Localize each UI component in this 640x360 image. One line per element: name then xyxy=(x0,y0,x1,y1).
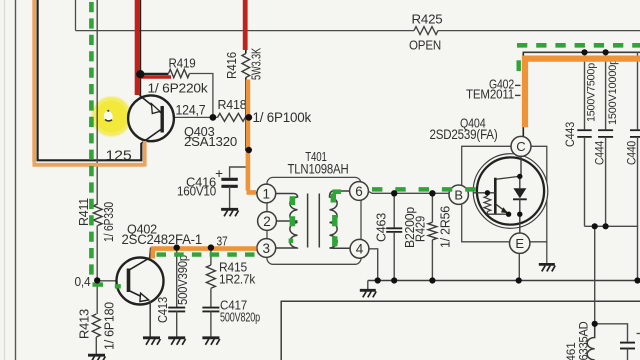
svg-text:3: 3 xyxy=(263,241,271,256)
wire: Q402 collector node line xyxy=(151,247,257,249)
svg-text:R419: R419 xyxy=(169,56,196,71)
T401 pin 2 xyxy=(258,212,277,231)
node: bus tap pin4 xyxy=(375,277,381,283)
label R415 xyxy=(219,260,247,275)
label 16335AD type of L461 xyxy=(579,322,591,360)
wire: Q404 E ground stub xyxy=(546,242,548,264)
svg-text:1/ 6P220k: 1/ 6P220k xyxy=(148,81,209,96)
resistor R413 xyxy=(92,314,100,337)
label 1500V10000p value of C444 xyxy=(607,59,619,125)
svg-text:1500V7500p: 1500V7500p xyxy=(586,63,598,122)
wire: R413 to ground xyxy=(95,337,97,355)
svg-text:E: E xyxy=(515,236,524,251)
node: cap return bus tap 2 xyxy=(603,223,609,229)
wire: left vertical wire x=15.5 xyxy=(15,0,17,360)
wire: C443 lower stem xyxy=(584,137,586,226)
transistor Q404 body xyxy=(473,154,548,229)
wire: C416 to ground xyxy=(229,186,231,208)
label 500V390p value of C413 xyxy=(176,255,190,305)
label C413 xyxy=(156,297,170,323)
green dashed: pin6 to base trace xyxy=(372,187,477,192)
svg-text:1: 1 xyxy=(263,186,271,201)
node: HV bus tap C443 xyxy=(581,49,587,55)
svg-text:160V10: 160V10 xyxy=(177,184,216,199)
label 1/2R56 value of R429 xyxy=(438,206,453,248)
label B2200p value of C463 xyxy=(402,207,417,248)
wire: L461 node to C capacitor xyxy=(595,324,628,342)
transistor Q403 body xyxy=(128,95,174,141)
svg-text:TLN1098AH: TLN1098AH xyxy=(288,162,349,177)
orange highlight: left collector path xyxy=(33,0,145,167)
label R429 xyxy=(414,216,428,242)
svg-text:0,4: 0,4 xyxy=(75,274,91,289)
wire: R411 to node 0,4 xyxy=(96,226,98,281)
svg-text:C443: C443 xyxy=(565,122,577,147)
svg-text:R418: R418 xyxy=(218,97,247,112)
wire: bottom-right capacitor lower stem xyxy=(627,349,629,360)
ground below C413 xyxy=(168,338,185,345)
svg-text:+: + xyxy=(215,166,223,181)
wire: R416 top stub (under red) xyxy=(245,0,247,54)
ground below C417 xyxy=(202,338,219,345)
label R418 xyxy=(218,97,247,112)
node: L461 node xyxy=(592,321,598,327)
label R411 xyxy=(77,198,91,226)
label T401 xyxy=(305,149,327,164)
capacitor C463 xyxy=(386,228,402,232)
svg-text:4: 4 xyxy=(356,242,364,257)
T401 pin 3 xyxy=(257,239,276,258)
node: C413 tap xyxy=(174,244,180,250)
svg-text:TEM2011: TEM2011 xyxy=(466,87,514,102)
label R413 xyxy=(78,309,92,339)
wire: C440 lower stem xyxy=(637,137,639,226)
svg-text:1500V10000p: 1500V10000p xyxy=(607,59,619,125)
cursor highlight (yellow) xyxy=(92,97,131,136)
capacitor C416 (electrolytic) xyxy=(221,179,237,186)
label C417 xyxy=(220,298,247,313)
label Q404 xyxy=(460,116,486,131)
label TLN1098AH type of T401 xyxy=(288,162,349,177)
resistor R418 xyxy=(218,113,246,121)
wire: C443 upper stem xyxy=(584,52,586,129)
transistor Q402 internals xyxy=(129,258,150,302)
wire: Q402 base wire xyxy=(97,280,126,282)
wire: bus ground stub xyxy=(367,281,369,290)
wire: Q403 base wire xyxy=(164,116,218,118)
svg-text:R413: R413 xyxy=(78,309,92,339)
node: base node junction xyxy=(210,114,217,121)
orange highlight: R416 to pin1 path xyxy=(247,80,257,193)
svg-text:1/ 6P100k: 1/ 6P100k xyxy=(253,110,312,125)
wire: C463 to bottom bus xyxy=(393,232,395,281)
capacitor C443 xyxy=(577,130,591,137)
resistor R415 xyxy=(206,265,215,288)
svg-text:R411: R411 xyxy=(77,198,91,226)
wire: R429 to bottom bus xyxy=(431,240,433,281)
resistor R411 xyxy=(93,204,102,225)
label C463 xyxy=(375,213,389,242)
svg-text:500V390p: 500V390p xyxy=(176,255,190,305)
svg-text:C444: C444 xyxy=(595,140,607,165)
resistor R419 xyxy=(169,69,190,77)
wire: C444 upper stem xyxy=(605,52,607,129)
label 500V820p value of C417 xyxy=(220,310,260,325)
label 1/6P180 value of R413 xyxy=(103,302,117,350)
label 160V10 value of C416 xyxy=(177,184,216,199)
node: R418 at bus xyxy=(245,114,252,121)
svg-text:C413: C413 xyxy=(156,297,170,323)
red highlight: R419 branch xyxy=(135,75,171,79)
node: cap return bus tap 1 xyxy=(592,223,598,229)
label OPEN xyxy=(409,38,441,53)
label 125 measurement xyxy=(106,148,132,163)
wire: HV bus (under highlights) xyxy=(523,51,640,53)
svg-text:16335AD: 16335AD xyxy=(579,322,591,360)
wire: base feed wire top xyxy=(96,0,98,204)
green dashed: left vertical trace xyxy=(91,2,120,286)
resistor R416 xyxy=(242,54,250,78)
wire: heavy black wire top-left corner to Q403 collector xyxy=(38,0,142,160)
svg-text:2SD2539(FA): 2SD2539(FA) xyxy=(430,127,498,142)
svg-text:1/ 6P330: 1/ 6P330 xyxy=(102,202,116,242)
transformer T401 primary winding xyxy=(276,194,298,249)
label Q403 xyxy=(184,124,215,139)
T401 pin 4 xyxy=(350,239,369,258)
wire: T401 pin2 tap xyxy=(276,220,297,222)
wire: R415 to C417 xyxy=(210,288,212,307)
Q404 internal junction dots xyxy=(485,174,523,217)
svg-text:500V820p: 500V820p xyxy=(220,310,260,325)
label + polarity of C416 xyxy=(215,166,223,181)
Q404 pin E xyxy=(510,233,530,253)
svg-text:OPEN: OPEN xyxy=(409,38,441,53)
node: R419/emitter junction xyxy=(136,70,144,78)
label 124,7 measurement xyxy=(176,103,206,118)
wire: R425 bus segment right xyxy=(438,30,640,32)
red highlight: R416 feed xyxy=(243,0,248,50)
node: R429 tap xyxy=(429,190,435,196)
node: bus tap C463 xyxy=(391,277,397,283)
wire: R416 to T401 pin1 (under orange) xyxy=(246,78,257,193)
label 1500V7500p value of C443 xyxy=(586,63,598,122)
transistor Q403 internals xyxy=(140,95,163,143)
T401 pin 1 xyxy=(257,184,276,203)
wire: capacitor bottom bus xyxy=(585,226,638,280)
label Q402 xyxy=(127,222,157,237)
label R425 xyxy=(412,12,443,27)
capacitor C444 xyxy=(598,130,613,137)
wire: Q403 emitter supply wire (under red) xyxy=(139,0,141,96)
label 37 measurement xyxy=(217,234,228,249)
wire: Q402 collector riser xyxy=(150,248,151,259)
ground right of Q404 emitter xyxy=(539,264,555,271)
svg-text:6: 6 xyxy=(355,184,363,199)
label 1/6P100k value of R418 xyxy=(253,110,312,125)
wire: T401 pin6 to Q404 base node xyxy=(368,191,449,193)
svg-text:2: 2 xyxy=(263,214,271,229)
node: bus tap R429 xyxy=(429,277,435,283)
label TEM2011 type of G402 xyxy=(466,87,521,102)
wire: node to R413 xyxy=(96,281,98,314)
svg-text:5W3.3K: 5W3.3K xyxy=(249,48,264,80)
wire: C416 branch xyxy=(230,167,249,178)
node: bus corner right xyxy=(634,277,640,283)
green dashed: T401 secondary winding trace xyxy=(333,192,342,247)
green dashed: HV bus trace xyxy=(517,45,640,71)
svg-text:R425: R425 xyxy=(412,12,443,27)
resistor R429 xyxy=(428,222,437,240)
svg-text:1/ 6P180: 1/ 6P180 xyxy=(103,302,117,350)
node: R415 tap xyxy=(208,244,214,250)
label 0,4 measurement xyxy=(75,274,91,289)
wire: C444 lower stem xyxy=(605,137,607,226)
svg-text:B: B xyxy=(454,187,463,202)
wire: R425 bus segment left xyxy=(76,30,415,32)
svg-text:1/ 2R56: 1/ 2R56 xyxy=(438,206,453,248)
node: HV bus tap C444 xyxy=(603,49,609,55)
wire: C440 riser from bus corner xyxy=(637,52,639,129)
Q404 module outline xyxy=(462,146,547,242)
svg-text:C: C xyxy=(516,139,525,154)
label 1/6P220k value of R419 xyxy=(148,81,209,96)
green dashed: T401 primary winding trace xyxy=(289,196,294,243)
transformer T401 secondary winding xyxy=(330,191,350,248)
svg-text:1R2.7k: 1R2.7k xyxy=(219,272,256,287)
label C444 xyxy=(595,140,607,165)
resistor R425 xyxy=(414,27,438,35)
wire: junction to R419 xyxy=(140,73,168,75)
svg-text:2SC2482FA-1: 2SC2482FA-1 xyxy=(122,232,203,247)
ground below R413 xyxy=(88,355,105,360)
capacitor C417 xyxy=(202,308,219,312)
Q404 pin B xyxy=(449,185,468,204)
wire: cut-off stub right edge xyxy=(637,333,640,335)
transformer T401 core xyxy=(308,194,320,248)
wire: Q402 emitter to ground xyxy=(149,302,151,338)
label 2SA1320 type of Q403 xyxy=(184,134,237,149)
wire: Q404 E to bus xyxy=(518,253,520,280)
node: bus mid junction xyxy=(246,147,252,153)
ground below C416 xyxy=(221,209,238,216)
label R419 xyxy=(169,56,196,71)
label C416 xyxy=(186,175,216,190)
wire: faint left border line xyxy=(4,0,6,360)
label G402 xyxy=(489,77,521,92)
wire: C413 stem xyxy=(176,248,178,307)
label C443 xyxy=(565,122,577,147)
wire: C463 stem xyxy=(393,193,395,228)
wire: R429 stem xyxy=(431,193,433,222)
label 1R2.7k value of R415 xyxy=(219,272,256,287)
wire: lower return line xyxy=(281,301,640,360)
label L461 xyxy=(566,342,578,360)
wire: emitter ground bus xyxy=(368,280,640,282)
svg-text:37: 37 xyxy=(217,234,228,249)
label R416 xyxy=(224,52,239,79)
inductor L461 xyxy=(587,324,595,360)
node: C463 tap xyxy=(391,190,397,196)
orange highlight: HV bus top right xyxy=(523,56,640,128)
svg-text:R429: R429 xyxy=(414,216,428,242)
svg-text:C440: C440 xyxy=(627,141,639,165)
label 2SD2539(FA) type of Q404 xyxy=(430,127,498,142)
transistor Q402 body xyxy=(117,258,164,305)
ground on emitter bus xyxy=(360,290,376,297)
capacitor C440 xyxy=(630,130,640,137)
transformer T401 outline box xyxy=(267,177,361,264)
svg-text:124,7: 124,7 xyxy=(176,103,206,118)
ground below Q402 emitter xyxy=(143,338,160,345)
wire: C413 to ground xyxy=(176,311,178,337)
label 5W3.3K value of R416 xyxy=(249,48,264,80)
wire: T401 pin4 drop xyxy=(369,249,378,281)
transistor Q404 internals xyxy=(474,156,527,233)
svg-text:C463: C463 xyxy=(375,213,389,242)
svg-text:L461: L461 xyxy=(566,342,578,360)
green dashed: collector node trace xyxy=(157,252,258,256)
wire: top-left corner entering bus xyxy=(75,0,77,31)
capacitor at bottom right xyxy=(620,343,635,349)
T401 pin 6 xyxy=(350,182,369,201)
Q404 pin C xyxy=(511,136,531,156)
capacitor C413 xyxy=(168,308,185,312)
wire: C417 to ground xyxy=(210,311,212,337)
wire: C pin riser (under orange) xyxy=(522,52,524,136)
svg-text:2SA1320: 2SA1320 xyxy=(184,134,237,149)
node: 0,4 junction xyxy=(94,277,100,283)
svg-text:125: 125 xyxy=(106,148,132,163)
label 1/6P330 value of R411 xyxy=(102,202,116,242)
wire: R419 to base node xyxy=(190,74,213,115)
node: bus tap Q404 E xyxy=(516,277,522,283)
orange highlight: Q402 collector to pin3 xyxy=(151,249,257,259)
svg-text:R416: R416 xyxy=(224,52,239,79)
red highlight: emitter supply vertical xyxy=(135,0,140,95)
label C440 xyxy=(627,141,639,165)
label 2SC2482FA-1 type of Q402 xyxy=(122,232,203,247)
wire: drop to L461 node xyxy=(594,226,596,323)
wire: R415 stem xyxy=(210,248,212,265)
